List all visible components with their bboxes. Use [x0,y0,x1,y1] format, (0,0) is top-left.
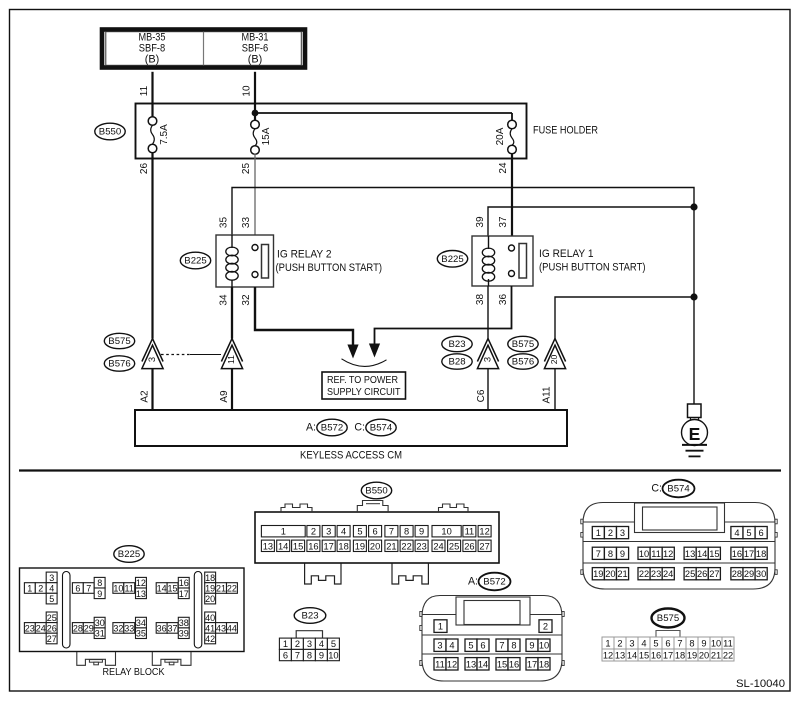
svg-text:14: 14 [278,541,288,551]
svg-text:20: 20 [205,594,215,604]
svg-text:14: 14 [478,659,488,669]
svg-text:23: 23 [25,623,35,633]
svg-text:9: 9 [529,641,534,651]
svg-text:16: 16 [651,651,661,661]
svg-text:13: 13 [615,651,625,661]
node: junction on pin-10 wire [252,110,259,117]
ground E [682,404,708,456]
svg-text:18: 18 [539,659,549,669]
svg-text:8: 8 [97,578,102,588]
connector symbol 11 (A9) [221,339,242,362]
svg-text:9: 9 [620,549,625,559]
svg-text:25: 25 [241,163,252,175]
wire relay2 pin34 to connector A9 [231,287,233,339]
svg-text:22: 22 [227,584,237,594]
wire A2 into keyless CM [151,369,153,410]
svg-text:36: 36 [157,623,167,633]
svg-text:15: 15 [497,659,507,669]
svg-text:RELAY BLOCK: RELAY BLOCK [103,667,165,678]
svg-text:B550: B550 [365,486,387,497]
svg-text:2: 2 [543,622,548,632]
svg-text:11: 11 [651,549,661,559]
svg-text:19: 19 [205,584,215,594]
svg-text:B574: B574 [667,484,690,495]
svg-text:(B): (B) [145,53,160,65]
svg-text:18: 18 [338,541,348,551]
svg-text:40: 40 [205,613,215,623]
wire relay1 pin36 to power supply arrow [375,286,512,344]
svg-text:27: 27 [709,569,719,579]
fuse holder box [136,104,527,159]
svg-text:B225: B225 [118,549,140,560]
svg-text:43: 43 [216,623,226,633]
svg-text:3: 3 [326,527,331,537]
wire relay2 pin32 to power supply arrow [255,287,353,345]
svg-text:13: 13 [466,659,476,669]
svg-text:11: 11 [723,639,733,649]
svg-text:1: 1 [281,527,286,537]
svg-text:10: 10 [639,549,649,559]
svg-text:B23: B23 [301,611,318,622]
svg-text:1: 1 [283,639,288,649]
svg-text:C:: C: [651,483,662,495]
svg-text:27: 27 [47,634,57,644]
svg-text:24: 24 [663,569,673,579]
svg-text:13: 13 [136,589,146,599]
svg-text:11: 11 [465,527,475,537]
fuse 7.5A [148,117,157,126]
svg-text:IG RELAY 1: IG RELAY 1 [539,248,594,260]
connector B225 relay block pinout [114,546,144,563]
B550 mounting tabs [305,564,341,585]
wire A9 into keyless CM [231,369,233,410]
svg-text:30: 30 [95,618,105,628]
connector B225 label (relay 2) [180,252,210,269]
svg-text:22: 22 [723,651,733,661]
svg-text:4: 4 [319,639,324,649]
svg-text:(PUSH BUTTON START): (PUSH BUTTON START) [276,262,383,274]
svg-text:14: 14 [627,651,637,661]
svg-text:4: 4 [449,641,454,651]
svg-text:B23: B23 [448,339,465,350]
svg-text:20: 20 [549,355,559,365]
svg-text:6: 6 [665,639,670,649]
connector B225 label (relay 1) [437,250,467,267]
svg-text:18: 18 [205,573,215,583]
svg-text:19: 19 [355,541,365,551]
svg-text:32: 32 [113,623,123,633]
svg-text:26: 26 [47,623,57,633]
svg-text:B225: B225 [184,256,206,267]
svg-text:17: 17 [744,549,754,559]
svg-text:22: 22 [639,569,649,579]
svg-text:20: 20 [699,651,709,661]
wire MB-31 to fuse 15A [254,72,256,121]
svg-text:29: 29 [84,623,94,633]
connector B550 pinout [361,482,391,499]
wire: bus to connector A11 [555,297,694,339]
svg-text:4: 4 [734,528,739,538]
svg-text:9: 9 [419,527,424,537]
wire MB-35 to fuse 7.5A [151,72,153,117]
svg-text:2: 2 [608,528,613,538]
svg-text:9: 9 [701,639,706,649]
svg-text:22: 22 [401,541,411,551]
svg-text:3: 3 [620,528,625,538]
wire pin 24: fuse to relay 1 pin 37 [511,153,513,245]
svg-text:10: 10 [441,527,451,537]
svg-text:23: 23 [651,569,661,579]
svg-text:B28: B28 [448,357,465,368]
relay IG RELAY 1 [472,236,533,286]
svg-text:KEYLESS ACCESS CM: KEYLESS ACCESS CM [300,450,402,462]
svg-text:4: 4 [49,584,54,594]
node: bus junction upper [690,203,697,210]
svg-text:A11: A11 [542,386,553,403]
wire pin 25: fuse to relay 2 pin 33 [254,154,256,245]
svg-text:3: 3 [146,357,157,362]
svg-text:5: 5 [468,641,473,651]
wire: relay1 pin39 to right bus [488,207,694,236]
svg-text:11: 11 [125,584,134,594]
svg-text:37: 37 [498,216,509,228]
svg-text:7: 7 [677,639,682,649]
svg-text:23: 23 [416,541,426,551]
svg-text:12: 12 [663,549,673,559]
svg-text:10: 10 [328,651,338,661]
svg-text:4: 4 [641,639,646,649]
svg-text:6: 6 [480,641,485,651]
connector B23 pinout [294,608,326,624]
svg-text:35: 35 [136,629,146,639]
svg-text:41: 41 [205,623,215,633]
svg-text:B574: B574 [370,423,393,434]
svg-text:5: 5 [746,528,751,538]
svg-text:B576: B576 [512,357,534,368]
svg-text:18: 18 [756,549,766,559]
svg-text:MB-35: MB-35 [139,31,166,43]
svg-text:24: 24 [433,541,443,551]
svg-text:28: 28 [73,623,83,633]
svg-text:31: 31 [95,629,105,639]
svg-text:25: 25 [449,541,459,551]
svg-text:5: 5 [49,594,54,604]
arrow to power supply circuit (left) [347,345,358,359]
svg-text:12: 12 [479,527,489,537]
svg-text:7: 7 [596,549,601,559]
svg-text:10: 10 [242,85,253,97]
svg-text:12: 12 [447,659,457,669]
relay IG RELAY 2 [216,235,274,287]
svg-text:10: 10 [113,584,123,594]
svg-text:34: 34 [136,618,146,628]
svg-text:39: 39 [179,629,189,639]
svg-text:1: 1 [438,622,443,632]
svg-text:12: 12 [603,651,613,661]
svg-text:B575: B575 [108,336,130,347]
svg-text:IG RELAY 2: IG RELAY 2 [277,249,332,261]
wire relay1 pin38 to connector C6 [487,286,489,339]
svg-text:10: 10 [539,641,549,651]
arrow to power supply circuit (right) [369,344,380,358]
svg-text:5: 5 [653,639,658,649]
connector labels B575/B576 (left) [104,333,134,348]
svg-text:34: 34 [219,294,230,306]
svg-text:39: 39 [475,216,486,228]
svg-text:21: 21 [216,584,226,594]
svg-text:24: 24 [36,623,46,633]
connector B575 pinout [652,609,685,628]
svg-text:20A: 20A [495,127,506,145]
svg-text:33: 33 [241,217,252,229]
svg-text:21: 21 [617,569,627,579]
svg-text:26: 26 [697,569,707,579]
svg-text:15: 15 [167,584,177,594]
svg-text:25: 25 [47,613,57,623]
svg-text:17: 17 [324,541,334,551]
wire pin 26: fuse to connector A2 [151,152,153,339]
svg-text:17: 17 [179,589,189,599]
svg-text:A:: A: [306,422,316,434]
svg-text:38: 38 [475,294,486,306]
svg-text:3: 3 [307,639,312,649]
svg-text:1: 1 [596,528,601,538]
svg-text:16: 16 [308,541,318,551]
svg-text:28: 28 [732,569,742,579]
svg-text:2: 2 [295,639,300,649]
svg-text:33: 33 [124,623,134,633]
svg-text:3: 3 [437,641,442,651]
svg-text:11: 11 [435,659,445,669]
svg-text:B225: B225 [441,254,463,265]
connector B550 label [95,123,125,140]
svg-text:7: 7 [389,527,394,537]
arc under arrows [342,359,387,367]
connector labels B575/B576 (right) [508,336,538,351]
svg-text:6: 6 [283,651,288,661]
svg-text:7: 7 [86,584,91,594]
svg-text:20: 20 [370,541,380,551]
svg-text:A9: A9 [219,390,230,403]
svg-text:19: 19 [593,569,603,579]
svg-text:C:: C: [354,422,365,434]
ref box [322,372,406,399]
svg-text:17: 17 [663,651,673,661]
wire A11 into keyless CM [554,369,556,410]
svg-text:5: 5 [331,639,336,649]
node: bus junction lower [690,293,697,300]
connector symbol 3 (A2) [142,339,163,362]
svg-text:7: 7 [499,641,504,651]
wire: relay2 pin35 to right bus [232,188,694,236]
svg-text:4: 4 [341,527,346,537]
svg-text:7: 7 [295,651,300,661]
svg-text:2: 2 [617,639,622,649]
svg-text:20: 20 [605,569,615,579]
svg-text:FUSE HOLDER: FUSE HOLDER [533,125,598,137]
svg-text:16: 16 [509,659,519,669]
separator line [19,469,781,471]
svg-text:9: 9 [97,589,102,599]
svg-text:B575: B575 [657,613,679,624]
svg-text:42: 42 [205,634,215,644]
svg-text:15A: 15A [261,127,272,145]
wire: ground bus [693,207,695,404]
svg-text:13: 13 [685,549,695,559]
connector labels B23/B28 [442,336,472,351]
svg-text:12: 12 [136,578,146,588]
svg-text:3: 3 [481,357,492,362]
svg-text:B572: B572 [321,423,343,434]
svg-text:B550: B550 [99,127,121,138]
relay block mounting tabs [77,652,116,665]
svg-text:11: 11 [226,355,236,364]
svg-text:2: 2 [38,584,43,594]
svg-text:27: 27 [479,541,489,551]
svg-text:A:: A: [468,576,478,588]
svg-text:32: 32 [241,294,252,306]
svg-text:26: 26 [139,163,150,175]
svg-text:10: 10 [711,639,721,649]
svg-text:21: 21 [711,651,721,661]
svg-text:35: 35 [219,217,230,229]
svg-text:8: 8 [307,651,312,661]
dashed link between connectors [161,354,190,356]
svg-text:B576: B576 [108,359,130,370]
svg-text:C6: C6 [476,389,487,402]
svg-text:3: 3 [49,573,54,583]
svg-text:8: 8 [511,641,516,651]
svg-text:6: 6 [373,527,378,537]
svg-text:16: 16 [732,549,742,559]
svg-text:14: 14 [697,549,707,559]
svg-text:2: 2 [311,527,316,537]
svg-text:26: 26 [464,541,474,551]
svg-text:1: 1 [27,584,32,594]
svg-text:11: 11 [139,85,150,96]
svg-text:1: 1 [605,639,610,649]
svg-text:8: 8 [689,639,694,649]
svg-text:8: 8 [608,549,613,559]
svg-text:3: 3 [629,639,634,649]
svg-text:15: 15 [639,651,649,661]
svg-text:17: 17 [527,659,537,669]
keyless access CM box [135,410,567,446]
svg-text:24: 24 [498,162,509,174]
svg-text:6: 6 [759,528,764,538]
svg-text:15: 15 [709,549,719,559]
svg-text:25: 25 [685,569,695,579]
svg-text:7.5A: 7.5A [159,124,170,145]
svg-text:A2: A2 [140,390,151,403]
power supply block MB-35 / MB-31 [102,30,305,68]
svg-text:30: 30 [756,569,766,579]
svg-text:14: 14 [157,584,167,594]
svg-text:18: 18 [675,651,685,661]
svg-text:16: 16 [179,578,189,588]
svg-text:B575: B575 [512,339,534,350]
svg-text:B572: B572 [483,577,505,588]
svg-text:(B): (B) [248,53,263,65]
svg-text:9: 9 [319,651,324,661]
svg-text:SUPPLY CIRCUIT: SUPPLY CIRCUIT [327,387,401,398]
wire C6 into keyless CM [487,369,489,410]
svg-text:21: 21 [386,541,396,551]
svg-text:E: E [689,424,701,444]
svg-text:29: 29 [744,569,754,579]
svg-text:6: 6 [75,584,80,594]
svg-text:SL-10040: SL-10040 [736,678,785,690]
svg-text:5: 5 [357,527,362,537]
svg-text:REF. TO POWER: REF. TO POWER [327,375,398,386]
svg-text:MB-31: MB-31 [242,31,269,43]
connector symbol 3 (C6) [477,339,498,362]
svg-text:13: 13 [263,541,273,551]
svg-text:36: 36 [498,294,509,306]
fuse 15A [251,120,260,129]
svg-text:38: 38 [179,618,189,628]
svg-text:37: 37 [167,623,177,633]
wire: feed to 20A fuse [255,112,512,114]
svg-text:15: 15 [293,541,303,551]
fuse 20A [508,120,517,129]
svg-text:44: 44 [227,623,237,633]
svg-text:8: 8 [404,527,409,537]
svg-text:19: 19 [687,651,697,661]
connector symbol 20 (A11) [544,339,565,362]
svg-text:(PUSH BUTTON START): (PUSH BUTTON START) [539,262,646,274]
